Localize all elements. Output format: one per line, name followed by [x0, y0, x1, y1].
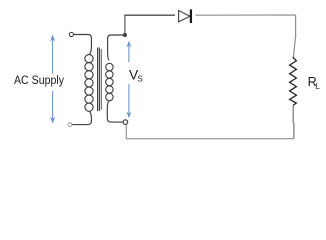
- primary terminal bottom (open circle): [68, 123, 72, 127]
- core laminations: [97, 48, 99, 112]
- svg-text:L: L: [315, 82, 320, 91]
- node: secondary top junction (filled dot): [123, 33, 127, 37]
- node: secondary bottom junction (open circle): [123, 120, 128, 125]
- wire: top rail left of diode: [124, 14, 175, 16]
- diode D1: [179, 9, 191, 23]
- AC supply voltage arrow (blue double arrow): [50, 34, 55, 124]
- resistor RL (vertical zigzag): [290, 57, 297, 106]
- transformer T1: [68, 32, 124, 126]
- secondary top lead: [108, 35, 124, 60]
- Vs measurement arrows (blue): [127, 41, 132, 119]
- primary terminal top (open circle): [69, 32, 73, 36]
- secondary bottom lead: [107, 101, 123, 123]
- wire: top rail right of diode: [196, 14, 296, 16]
- wire: bottom rail: [126, 138, 294, 140]
- wire: bottom-left vertical from bottom rail to secondary bottom node: [125, 124, 127, 139]
- svg-text:AC Supply: AC Supply: [14, 73, 65, 87]
- wire: right vertical lower segment below resistor: [292, 105, 295, 138]
- wire: right vertical upper segment: [293, 15, 295, 57]
- primary winding loops: [85, 55, 93, 63]
- wire: top-left vertical from secondary top node to top rail: [124, 15, 126, 33]
- primary top lead: [74, 35, 92, 55]
- secondary winding loops: [106, 63, 113, 70]
- primary bottom lead: [72, 111, 91, 124]
- svg-text:S: S: [137, 75, 143, 84]
